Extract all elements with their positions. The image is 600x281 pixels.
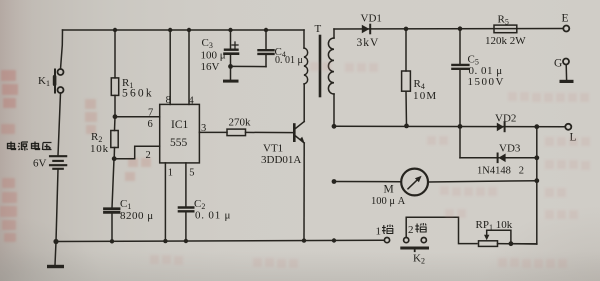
svg-text:270k: 270k [229,117,252,129]
diode VD2 [497,123,504,132]
ghost bleedthrough text (reverse side), red [0,70,151,242]
wire pin 5 / capacitor C2 [185,163,187,207]
terminal L [565,124,571,130]
L line (VD2 rail) wire [334,125,565,128]
svg-text:6V: 6V [33,158,47,170]
K2 1挡 contact [384,238,389,243]
potentiometer RP body [479,241,498,247]
secondary top / VD1 / R5 line [334,28,563,31]
node R4 bottom [404,124,409,129]
svg-text:1: 1 [168,168,173,179]
电 [8,142,16,150]
IC 555 box [160,104,200,162]
svg-text:VD2: VD2 [495,113,516,125]
svg-text:2: 2 [408,224,414,236]
node C5 top [458,26,463,31]
node pin1 bottom [163,239,167,243]
node C4 top [264,28,268,32]
svg-text:5: 5 [189,168,194,179]
svg-text:8: 8 [166,95,171,106]
svg-text:VD1: VD1 [361,13,382,25]
node C2 bottom [184,239,188,243]
svg-text:IC1: IC1 [171,119,189,131]
wire K1 to battery [58,93,61,156]
wire 2挡 to RP [406,217,477,243]
svg-text:10M: 10M [413,90,437,102]
capacitor C1 [112,159,114,208]
capacitor C5 [459,29,461,64]
svg-text:M: M [384,184,394,196]
label 2挡 [408,223,426,236]
VD3 branch wire [460,157,537,159]
VD3 branch drop wire [459,126,461,157]
svg-text:555: 555 [170,137,188,149]
capacitor C4 [265,30,267,50]
wire C3-C4 bottoms [231,65,267,67]
svg-text:3DD01A: 3DD01A [261,154,301,166]
C3 plus sign [232,42,238,48]
transformer T primary [303,30,305,48]
svg-text:RP1 10k: RP1 10k [476,219,513,232]
transformer T secondary [333,29,335,38]
resistor R2 [114,117,117,131]
capacitor C3 electrolytic [230,30,232,49]
node secondary column bottom [332,238,336,242]
RP right lead wire [498,243,537,245]
svg-text:560k: 560k [122,88,154,100]
svg-text:1N4148 2: 1N4148 2 [477,166,524,177]
svg-text:100 μ A: 100 μ A [371,196,406,207]
svg-text:1500V: 1500V [468,76,505,88]
wire battery to bottom rail [56,170,58,242]
svg-text:120k 2W: 120k 2W [485,35,526,47]
svg-text:E: E [562,13,569,25]
svg-text:1: 1 [376,226,382,238]
电 [32,142,40,150]
node C1 bottom [110,239,114,243]
node R1 top [113,28,117,32]
node pin4 top [187,28,191,32]
svg-text:VT1: VT1 [263,143,283,155]
resistor R5 [494,25,517,33]
transistor VT1 [293,123,296,142]
diode VD3 [498,154,505,163]
源 [18,142,28,151]
resistor R3 270k, pin3 wire [199,131,227,133]
node R2/C1/pin2 [112,156,117,161]
meter line wire left [334,181,401,183]
svg-text:8200 μ: 8200 μ [120,210,154,222]
schematic ink [47,25,574,268]
svg-text:3kV: 3kV [357,37,380,49]
wire left column top [61,30,63,69]
wire pin 2 jog [114,146,160,159]
label 1挡 [376,225,393,238]
terminal G with ground [563,59,569,65]
label 电源电压 drawn as paths [8,142,52,151]
svg-text:3: 3 [201,123,206,134]
svg-text:10k: 10k [90,143,109,155]
svg-text:T: T [315,23,322,35]
svg-text:0. 01 μ: 0. 01 μ [275,55,303,66]
bottom rail wire [56,240,384,241]
right column vertical [536,127,538,244]
meter M [401,169,428,196]
resistor R4 [405,29,407,71]
node meter line right [534,178,539,183]
node C5 bottom [458,124,463,129]
svg-text:4: 4 [189,96,195,107]
wire pin 4 [188,30,190,104]
node pin8 top [168,28,172,32]
svg-text:VD3: VD3 [499,143,521,155]
diode VD1 [362,25,370,34]
压 [43,143,52,151]
wire pins 7/6 [115,116,160,118]
svg-text:7: 7 [148,107,153,118]
K2 2挡 contacts [404,238,409,243]
faint ghost rows right side [150,62,590,268]
svg-text:2: 2 [146,150,151,161]
RP wiper [486,231,488,237]
terminal E [563,26,569,32]
node C3 top [228,28,232,32]
node R1/R2/pin7 [113,114,118,119]
node VD1/R4 [404,27,409,32]
svg-text:6: 6 [148,119,153,130]
node VD3 right [534,155,539,160]
node RP wiper/right lead [509,241,514,246]
wire pin 8 [169,30,171,104]
top rail [63,29,305,31]
svg-text:G: G [554,58,562,70]
svg-text:100 μ: 100 μ [201,50,226,62]
node bottom-left [53,239,58,244]
svg-text:0. 01 μ: 0. 01 μ [195,210,231,222]
wire pin 1 [164,163,166,241]
resistor R1 [114,30,116,78]
svg-text:16V: 16V [201,61,220,73]
node meter line left [332,179,337,184]
node secondary bottom [332,124,337,129]
ground [55,242,56,266]
transformer core [319,36,322,96]
node VD2/VD3 right [534,124,539,129]
node VT1 emitter bottom [302,238,306,242]
switch K1 [58,69,64,75]
meter line wire right [428,181,537,182]
battery B 6V [50,155,66,157]
